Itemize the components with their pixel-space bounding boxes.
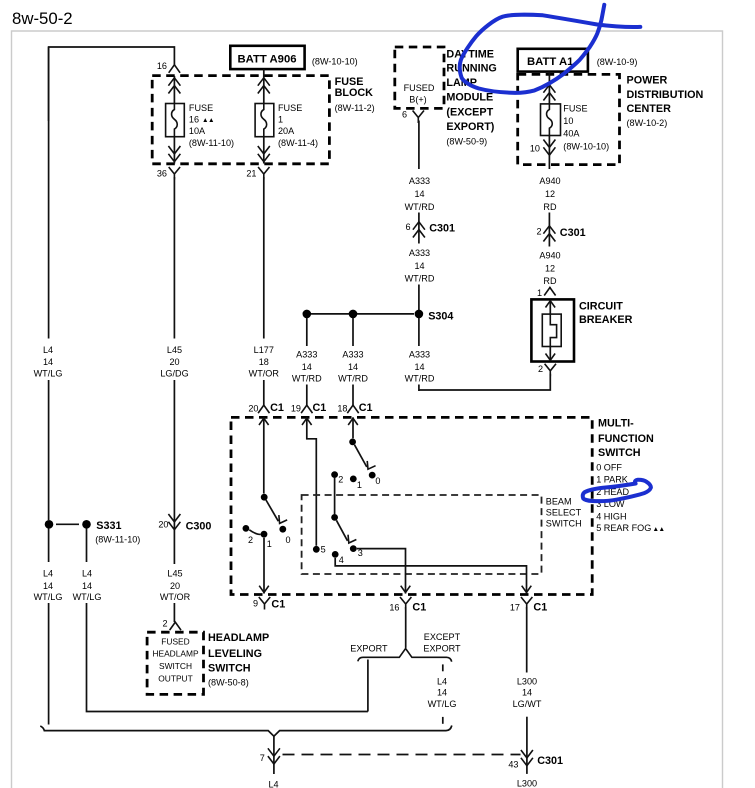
svg-text:CENTER: CENTER [627, 103, 672, 115]
splice S331 [45, 520, 54, 529]
wire contact4 to pin17 [335, 558, 526, 594]
PDC box [518, 74, 620, 164]
blue annotation big loop [460, 5, 641, 93]
wire to connector 7 [273, 736, 275, 774]
dimmer rotary [352, 417, 354, 438]
svg-text:HEADLAMP: HEADLAMP [152, 648, 198, 658]
svg-text:5: 5 [321, 545, 326, 555]
svg-text:B(+): B(+) [409, 94, 426, 104]
svg-text:14: 14 [414, 362, 424, 372]
wire A940 seg2 [548, 213, 550, 247]
svg-text:MULTI-: MULTI- [598, 417, 634, 429]
wire CB out [419, 374, 550, 390]
svg-text:5 REAR FOG: 5 REAR FOG [596, 523, 651, 533]
svg-text:C1: C1 [270, 402, 284, 414]
blue annotation 2 HEAD loop [583, 480, 651, 501]
wire A333 pin19 branch [306, 318, 308, 346]
wire except-export stub [442, 664, 444, 671]
splice S304 [307, 313, 414, 315]
svg-text:(8W-10-2): (8W-10-2) [627, 118, 668, 128]
svg-text:WT/RD: WT/RD [338, 374, 368, 384]
svg-text:L300: L300 [517, 676, 537, 686]
svg-text:18: 18 [259, 357, 269, 367]
double chevron up PDC fuse [543, 85, 555, 101]
svg-text:4: 4 [339, 555, 344, 565]
svg-text:EXPORT: EXPORT [423, 644, 461, 654]
BATT A906 box [230, 46, 304, 69]
wire pin16 down [405, 607, 407, 648]
svg-text:19: 19 [291, 403, 301, 413]
svg-text:OUTPUT: OUTPUT [158, 674, 192, 684]
svg-text:BLOCK: BLOCK [335, 87, 374, 99]
svg-text:WT/RD: WT/RD [292, 374, 322, 384]
svg-text:WT/LG: WT/LG [34, 592, 63, 602]
svg-text:2: 2 [162, 619, 167, 629]
svg-text:BATT A1: BATT A1 [527, 56, 573, 68]
svg-text:1 PARK: 1 PARK [596, 475, 628, 485]
svg-text:14: 14 [348, 362, 358, 372]
headlamp leveling switch box [147, 632, 203, 694]
wire L4 main [48, 47, 50, 339]
double chevron down fuse1 out [173, 137, 175, 164]
svg-text:L45: L45 [167, 568, 182, 578]
svg-text:20: 20 [170, 581, 180, 591]
double chevron up fuse1 [173, 76, 175, 104]
svg-text:16: 16 [157, 61, 167, 71]
wire top-left L4 horizontal [49, 47, 175, 121]
svg-text:C300: C300 [186, 521, 212, 533]
svg-text:L4: L4 [268, 779, 278, 788]
svg-text:A940: A940 [539, 176, 560, 186]
wire L45 WT/OR [173, 531, 175, 564]
svg-text:10A: 10A [189, 126, 206, 136]
svg-text:(8W-11-10): (8W-11-10) [95, 535, 140, 545]
wire L45 [173, 177, 175, 339]
svg-text:14: 14 [437, 688, 447, 698]
svg-text:(8W-50-9): (8W-50-9) [446, 137, 487, 147]
svg-text:FUSE: FUSE [563, 104, 587, 114]
split brace [358, 649, 452, 662]
svg-text:(8W-10-10): (8W-10-10) [563, 142, 609, 152]
svg-text:HEADLAMP: HEADLAMP [208, 632, 269, 644]
svg-text:SELECT: SELECT [546, 508, 582, 518]
breaker internals [549, 300, 551, 314]
svg-text:SWITCH: SWITCH [546, 519, 582, 529]
svg-text:EXPORT: EXPORT [350, 644, 388, 654]
svg-text:C1: C1 [412, 602, 426, 614]
wire BATT A906 to fuse block [263, 69, 265, 76]
svg-text:S304: S304 [428, 310, 453, 322]
svg-text:C301: C301 [537, 755, 563, 767]
svg-text:C301: C301 [560, 227, 586, 239]
svg-text:14: 14 [82, 581, 92, 591]
svg-text:WT/OR: WT/OR [160, 592, 191, 602]
svg-text:14: 14 [43, 581, 53, 591]
svg-text:(EXCEPT: (EXCEPT [446, 107, 493, 119]
svg-text:L4: L4 [437, 676, 447, 686]
wire L4 below S331 [48, 529, 50, 563]
double chevron down fuse2 out [263, 137, 265, 164]
wire to pin9 [263, 538, 265, 594]
svg-text:SWITCH: SWITCH [159, 661, 192, 671]
svg-text:14: 14 [302, 362, 312, 372]
wire L4 branch2 below S331 [86, 529, 88, 563]
svg-text:3: 3 [358, 548, 363, 558]
svg-text:40A: 40A [563, 129, 580, 139]
svg-text:12: 12 [545, 263, 555, 273]
wire pin17 down [526, 607, 528, 673]
svg-text:WT/LG: WT/LG [73, 592, 102, 602]
svg-text:L4: L4 [43, 345, 53, 355]
svg-text:L4: L4 [82, 568, 92, 578]
svg-text:12: 12 [545, 189, 555, 199]
svg-text:7: 7 [260, 753, 265, 763]
svg-text:(8W-11-10): (8W-11-10) [189, 138, 234, 148]
svg-text:L300: L300 [517, 779, 537, 788]
DRL module box [395, 47, 444, 108]
svg-text:2: 2 [538, 364, 543, 374]
svg-text:20: 20 [248, 403, 258, 413]
svg-text:(8W-11-2): (8W-11-2) [335, 103, 375, 113]
svg-text:▲▲: ▲▲ [202, 117, 214, 124]
svg-text:14: 14 [414, 189, 424, 199]
svg-text:C1: C1 [313, 402, 327, 414]
wire contact3 to pin16 [357, 549, 406, 594]
svg-text:C1: C1 [533, 602, 547, 614]
svg-text:4 HIGH: 4 HIGH [596, 511, 626, 521]
svg-text:14: 14 [414, 261, 424, 271]
svg-text:FUSE: FUSE [278, 103, 302, 113]
fuse F10 PDC [541, 104, 561, 136]
svg-text:1: 1 [267, 539, 272, 549]
svg-text:POWER: POWER [627, 75, 668, 87]
svg-text:A333: A333 [296, 350, 317, 360]
wire BATT A1 to PDC [548, 72, 550, 104]
svg-text:DAYTIME: DAYTIME [446, 48, 494, 60]
svg-text:2: 2 [248, 535, 253, 545]
svg-text:1: 1 [357, 480, 362, 490]
svg-text:1: 1 [537, 288, 542, 298]
svg-text:RD: RD [543, 276, 557, 286]
svg-text:36: 36 [157, 169, 167, 179]
svg-text:MODULE: MODULE [446, 92, 493, 104]
svg-text:20A: 20A [278, 126, 295, 136]
wire A333 seg3 [418, 285, 420, 314]
circuit breaker box [531, 299, 574, 361]
svg-text:FUSED: FUSED [161, 637, 189, 647]
svg-text:(8W-10-10): (8W-10-10) [312, 57, 358, 67]
wire L177 [263, 177, 265, 339]
svg-text:BEAM: BEAM [546, 496, 572, 506]
svg-text:2: 2 [536, 227, 541, 237]
svg-text:A333: A333 [409, 176, 430, 186]
svg-text:2: 2 [338, 475, 343, 485]
wire A333 below S304 [418, 318, 420, 346]
svg-text:LG/DG: LG/DG [160, 369, 188, 379]
svg-text:BATT A906: BATT A906 [238, 54, 297, 66]
svg-text:1: 1 [278, 115, 283, 125]
svg-text:WT/OR: WT/OR [249, 369, 280, 379]
svg-text:FUSE: FUSE [189, 103, 213, 113]
svg-text:C301: C301 [429, 223, 455, 235]
svg-text:WT/LG: WT/LG [428, 699, 457, 709]
bottom bus [40, 726, 452, 737]
svg-text:(8W-50-8): (8W-50-8) [208, 677, 249, 687]
svg-text:SWITCH: SWITCH [208, 662, 251, 674]
svg-text:DISTRIBUTION: DISTRIBUTION [627, 89, 704, 101]
double chevron up fuse2 [263, 76, 265, 104]
svg-text:A333: A333 [409, 350, 430, 360]
svg-text:6: 6 [405, 222, 410, 232]
wire A333 pin18 branch [352, 318, 354, 346]
connector pin 16 fuse block [169, 65, 180, 73]
svg-text:0: 0 [285, 535, 290, 545]
svg-text:FUSED: FUSED [404, 83, 435, 93]
svg-text:WT/RD: WT/RD [405, 274, 435, 284]
wire pin19 to contact5 [307, 417, 317, 545]
wire A940 seg3 [549, 286, 551, 289]
svg-text:C1: C1 [271, 598, 285, 610]
svg-text:0: 0 [375, 476, 380, 486]
beam select switch box [302, 495, 542, 574]
fuse F1 [255, 104, 274, 137]
connector C300 [173, 519, 175, 531]
multifunction switch box [231, 417, 592, 594]
headlamp switch rotary [263, 417, 265, 493]
svg-text:A333: A333 [342, 350, 363, 360]
svg-text:0 OFF: 0 OFF [596, 462, 622, 472]
svg-text:WT/LG: WT/LG [34, 369, 63, 379]
svg-text:RD: RD [543, 202, 557, 212]
svg-text:20: 20 [158, 519, 168, 529]
svg-text:FUNCTION: FUNCTION [598, 433, 654, 445]
svg-text:8w-50-2: 8w-50-2 [12, 9, 73, 28]
svg-text:9: 9 [253, 599, 258, 609]
svg-text:16: 16 [189, 115, 199, 125]
svg-text:(8W-10-9): (8W-10-9) [597, 57, 638, 67]
svg-text:14: 14 [522, 688, 532, 698]
wire A333 seg2 [418, 213, 420, 244]
svg-text:10: 10 [563, 116, 573, 126]
svg-text:(8W-11-4): (8W-11-4) [278, 138, 318, 148]
svg-text:20: 20 [169, 357, 179, 367]
svg-text:WT/RD: WT/RD [405, 202, 435, 212]
svg-text:18: 18 [337, 403, 347, 413]
svg-text:A940: A940 [539, 251, 560, 261]
svg-text:L45: L45 [167, 345, 182, 355]
fuse block box [152, 76, 329, 164]
svg-text:S331: S331 [96, 520, 121, 532]
svg-text:C1: C1 [359, 402, 373, 414]
svg-text:16: 16 [389, 603, 399, 613]
svg-text:▲▲: ▲▲ [653, 526, 665, 533]
svg-text:14: 14 [43, 357, 53, 367]
svg-text:L4: L4 [43, 568, 53, 578]
svg-text:RUNNING: RUNNING [446, 63, 496, 75]
wire A333 seg1 [418, 121, 420, 170]
dashed continuation line [283, 754, 521, 756]
svg-text:EXCEPT: EXCEPT [424, 632, 461, 642]
BATT A1 box [518, 49, 588, 72]
svg-text:10: 10 [530, 144, 540, 154]
svg-text:17: 17 [510, 603, 520, 613]
svg-text:L177: L177 [254, 345, 274, 355]
svg-text:A333: A333 [409, 248, 430, 258]
svg-text:6: 6 [402, 110, 407, 120]
beam select rotary [334, 478, 336, 514]
svg-text:43: 43 [508, 760, 518, 770]
svg-text:EXPORT): EXPORT) [446, 121, 494, 133]
svg-text:BREAKER: BREAKER [579, 314, 633, 326]
svg-text:LEVELING: LEVELING [208, 648, 262, 660]
svg-text:WT/RD: WT/RD [405, 374, 435, 384]
fuse F16 [166, 104, 185, 137]
wire export branch [367, 660, 369, 712]
svg-text:SWITCH: SWITCH [598, 447, 641, 459]
svg-text:21: 21 [246, 169, 256, 179]
wire A940 seg1 [548, 165, 550, 170]
svg-text:CIRCUIT: CIRCUIT [579, 301, 623, 313]
svg-text:LG/WT: LG/WT [513, 699, 542, 709]
